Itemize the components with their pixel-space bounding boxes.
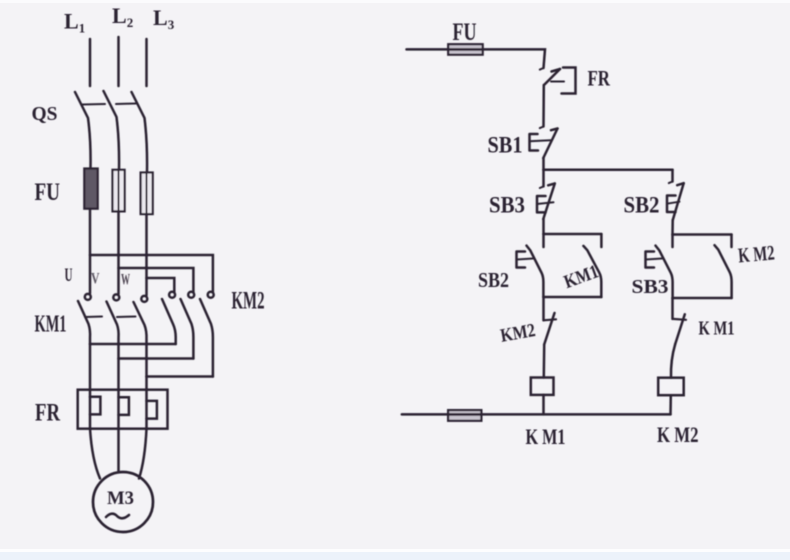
wire KM2 out2 to phase2 xyxy=(119,357,194,360)
aux contact KM2 (NO, self hold) xyxy=(715,235,732,299)
thermal relay FR box xyxy=(78,390,168,429)
label K M1 (coil) xyxy=(526,424,566,449)
KM1 interlock seat tick xyxy=(673,318,687,321)
label SB3 (right NO) xyxy=(632,276,669,298)
switch QS pole 3 blade xyxy=(132,92,148,172)
wire phase3 KM1 to FR xyxy=(145,377,148,401)
svg-text:V: V xyxy=(91,271,100,288)
label FU (main) xyxy=(35,179,61,206)
label L1 xyxy=(64,9,85,36)
button SB3 (NO start, right branch) xyxy=(646,235,673,299)
fuse FU (control bottom) xyxy=(448,410,481,421)
wire L1 down to QS xyxy=(89,39,92,86)
SB3 upper terminal tick xyxy=(540,186,544,188)
label K M1 (interlock) xyxy=(699,318,735,340)
svg-text:SB3: SB3 xyxy=(489,193,525,218)
svg-text:KM2: KM2 xyxy=(232,288,265,315)
label U xyxy=(65,265,73,286)
label SB1 xyxy=(488,133,523,158)
label FR (control) xyxy=(588,66,611,91)
svg-text:FU: FU xyxy=(453,19,477,46)
svg-text:K M1: K M1 xyxy=(526,424,566,449)
contactor KM1 pole 1 xyxy=(78,294,91,344)
aux contact KM1 (NO, self hold) xyxy=(583,234,601,297)
svg-text:KM1: KM1 xyxy=(35,312,67,338)
wire coil KM1 to bottom rail xyxy=(542,395,545,415)
coil KM1 xyxy=(531,378,554,395)
wire junction A down left xyxy=(542,170,545,187)
wire phase2 fuse to KM1 xyxy=(117,211,120,293)
FR contact upper terminal tick xyxy=(540,68,544,70)
FR heater 1 xyxy=(90,397,100,415)
wire L2 down to QS xyxy=(117,37,120,86)
wire box2 to KM1 interlock xyxy=(671,298,674,319)
svg-text:FU: FU xyxy=(35,179,61,206)
fuse FU3 (phase 3) xyxy=(141,173,153,215)
wire KM2 out1 to phase1 xyxy=(90,343,176,346)
svg-text:SB2: SB2 xyxy=(478,268,509,292)
wire box1 bottom xyxy=(544,296,602,299)
svg-text:W: W xyxy=(121,272,130,289)
contactor KM2 pole 1 xyxy=(162,292,176,344)
label KM2 (interlock, handwritten) xyxy=(499,320,537,347)
label KM1 (main) xyxy=(35,312,67,338)
svg-text:SB2: SB2 xyxy=(624,193,660,218)
label K M2 (aux) xyxy=(737,240,775,267)
interlock contact KM1 (NC) xyxy=(675,314,685,344)
svg-text:K M2: K M2 xyxy=(657,422,699,447)
label SB2 (right NC) xyxy=(624,193,660,218)
svg-text:SB1: SB1 xyxy=(488,133,523,158)
wire FR to SB1 xyxy=(542,85,545,127)
wire box2 top xyxy=(673,233,732,236)
wire FR to motor v xyxy=(117,415,120,472)
fuse FU2 (phase 2) xyxy=(113,170,125,212)
svg-text:K M2: K M2 xyxy=(737,240,775,267)
QS linkage dashes xyxy=(82,104,136,105)
KM2 interlock seat tick xyxy=(544,319,557,320)
label V xyxy=(91,271,100,288)
svg-text:M3: M3 xyxy=(107,489,134,509)
wire KM1 interlock to coil KM2 xyxy=(671,344,675,378)
FR heater 2 xyxy=(119,397,129,415)
motor M3 xyxy=(93,472,153,532)
wire SB2 to box2 top xyxy=(671,220,674,235)
wire H2 phase2 feed to KM2 pole2 xyxy=(119,268,194,292)
wire junction A horizontal xyxy=(544,168,673,171)
wire phase2 KM1 to FR xyxy=(117,359,120,398)
wire box1 to KM2 interlock xyxy=(542,297,545,320)
switch QS pole 1 blade xyxy=(75,92,91,168)
coil KM2 xyxy=(658,378,684,396)
wire box2 bottom xyxy=(673,297,732,300)
wire FR to motor u xyxy=(90,414,100,478)
wire H3 phase3 feed to KM2 pole1 xyxy=(147,278,175,292)
contactor KM1 pole 2 xyxy=(107,294,120,358)
button SB2 (NC, right branch) xyxy=(667,183,684,220)
svg-text:U: U xyxy=(65,265,73,286)
fuse FU (control top) xyxy=(448,44,483,55)
wire KM2 interlock to coil KM1 xyxy=(543,345,546,378)
label W xyxy=(121,272,130,289)
wire H1 phase1 feed to KM2 pole3 xyxy=(90,255,213,292)
relay contact FR (NC) xyxy=(544,68,576,94)
wire coil KM2 to bottom rail xyxy=(669,395,672,414)
button SB1 (NC stop) xyxy=(530,129,558,159)
svg-text:FR: FR xyxy=(35,400,61,427)
wire phase1 KM1 to FR xyxy=(89,344,92,397)
label FU (control) xyxy=(453,19,477,46)
wire phase1 fuse to KM1 xyxy=(89,209,92,294)
wire junction A down right xyxy=(671,170,674,182)
bottom rail wire xyxy=(402,413,671,416)
wire KM2 out3 to phase3 xyxy=(147,375,213,378)
wire L3 down to QS xyxy=(145,39,148,86)
label SB2 (left NO) xyxy=(478,268,509,292)
svg-text:SB3: SB3 xyxy=(632,276,669,298)
fuse FU1 (phase 1, filled) xyxy=(84,169,97,209)
label L3 xyxy=(153,5,175,32)
label K M2 (coil) xyxy=(657,422,699,447)
button SB3 (NC, left branch) xyxy=(537,184,555,220)
switch QS pole 2 blade xyxy=(104,91,120,170)
label QS xyxy=(32,103,58,125)
svg-text:FR: FR xyxy=(588,66,611,91)
svg-text:QS: QS xyxy=(32,103,58,125)
top rail wire xyxy=(407,49,546,68)
label KM1 (aux, handwritten) xyxy=(561,261,601,293)
contactor KM2 pole 2 xyxy=(181,292,195,359)
label FR (main) xyxy=(35,400,61,427)
FR heater 3 xyxy=(147,401,157,419)
button SB2 (NO start, left branch) xyxy=(517,234,544,297)
wire phase3 fuse to KM1 xyxy=(145,214,148,295)
contactor KM1 pole 3 xyxy=(134,296,148,377)
SB2 right upper terminal tick xyxy=(669,182,673,184)
wire FR to motor w xyxy=(139,419,147,479)
wire box1 top xyxy=(544,233,602,236)
label L2 xyxy=(112,3,133,30)
contactor KM2 pole 3 xyxy=(200,292,214,377)
KM1 linkage dashes xyxy=(85,316,136,319)
wire SB3 to box1 top xyxy=(542,219,545,234)
label KM2 (main) xyxy=(232,288,265,315)
interlock contact KM2 (NC) xyxy=(544,313,554,345)
SB1 upper terminal tick xyxy=(540,127,544,129)
label SB3 (left) xyxy=(489,193,525,218)
wire SB1 to junction A xyxy=(542,158,545,170)
svg-text:K M1: K M1 xyxy=(699,318,735,340)
